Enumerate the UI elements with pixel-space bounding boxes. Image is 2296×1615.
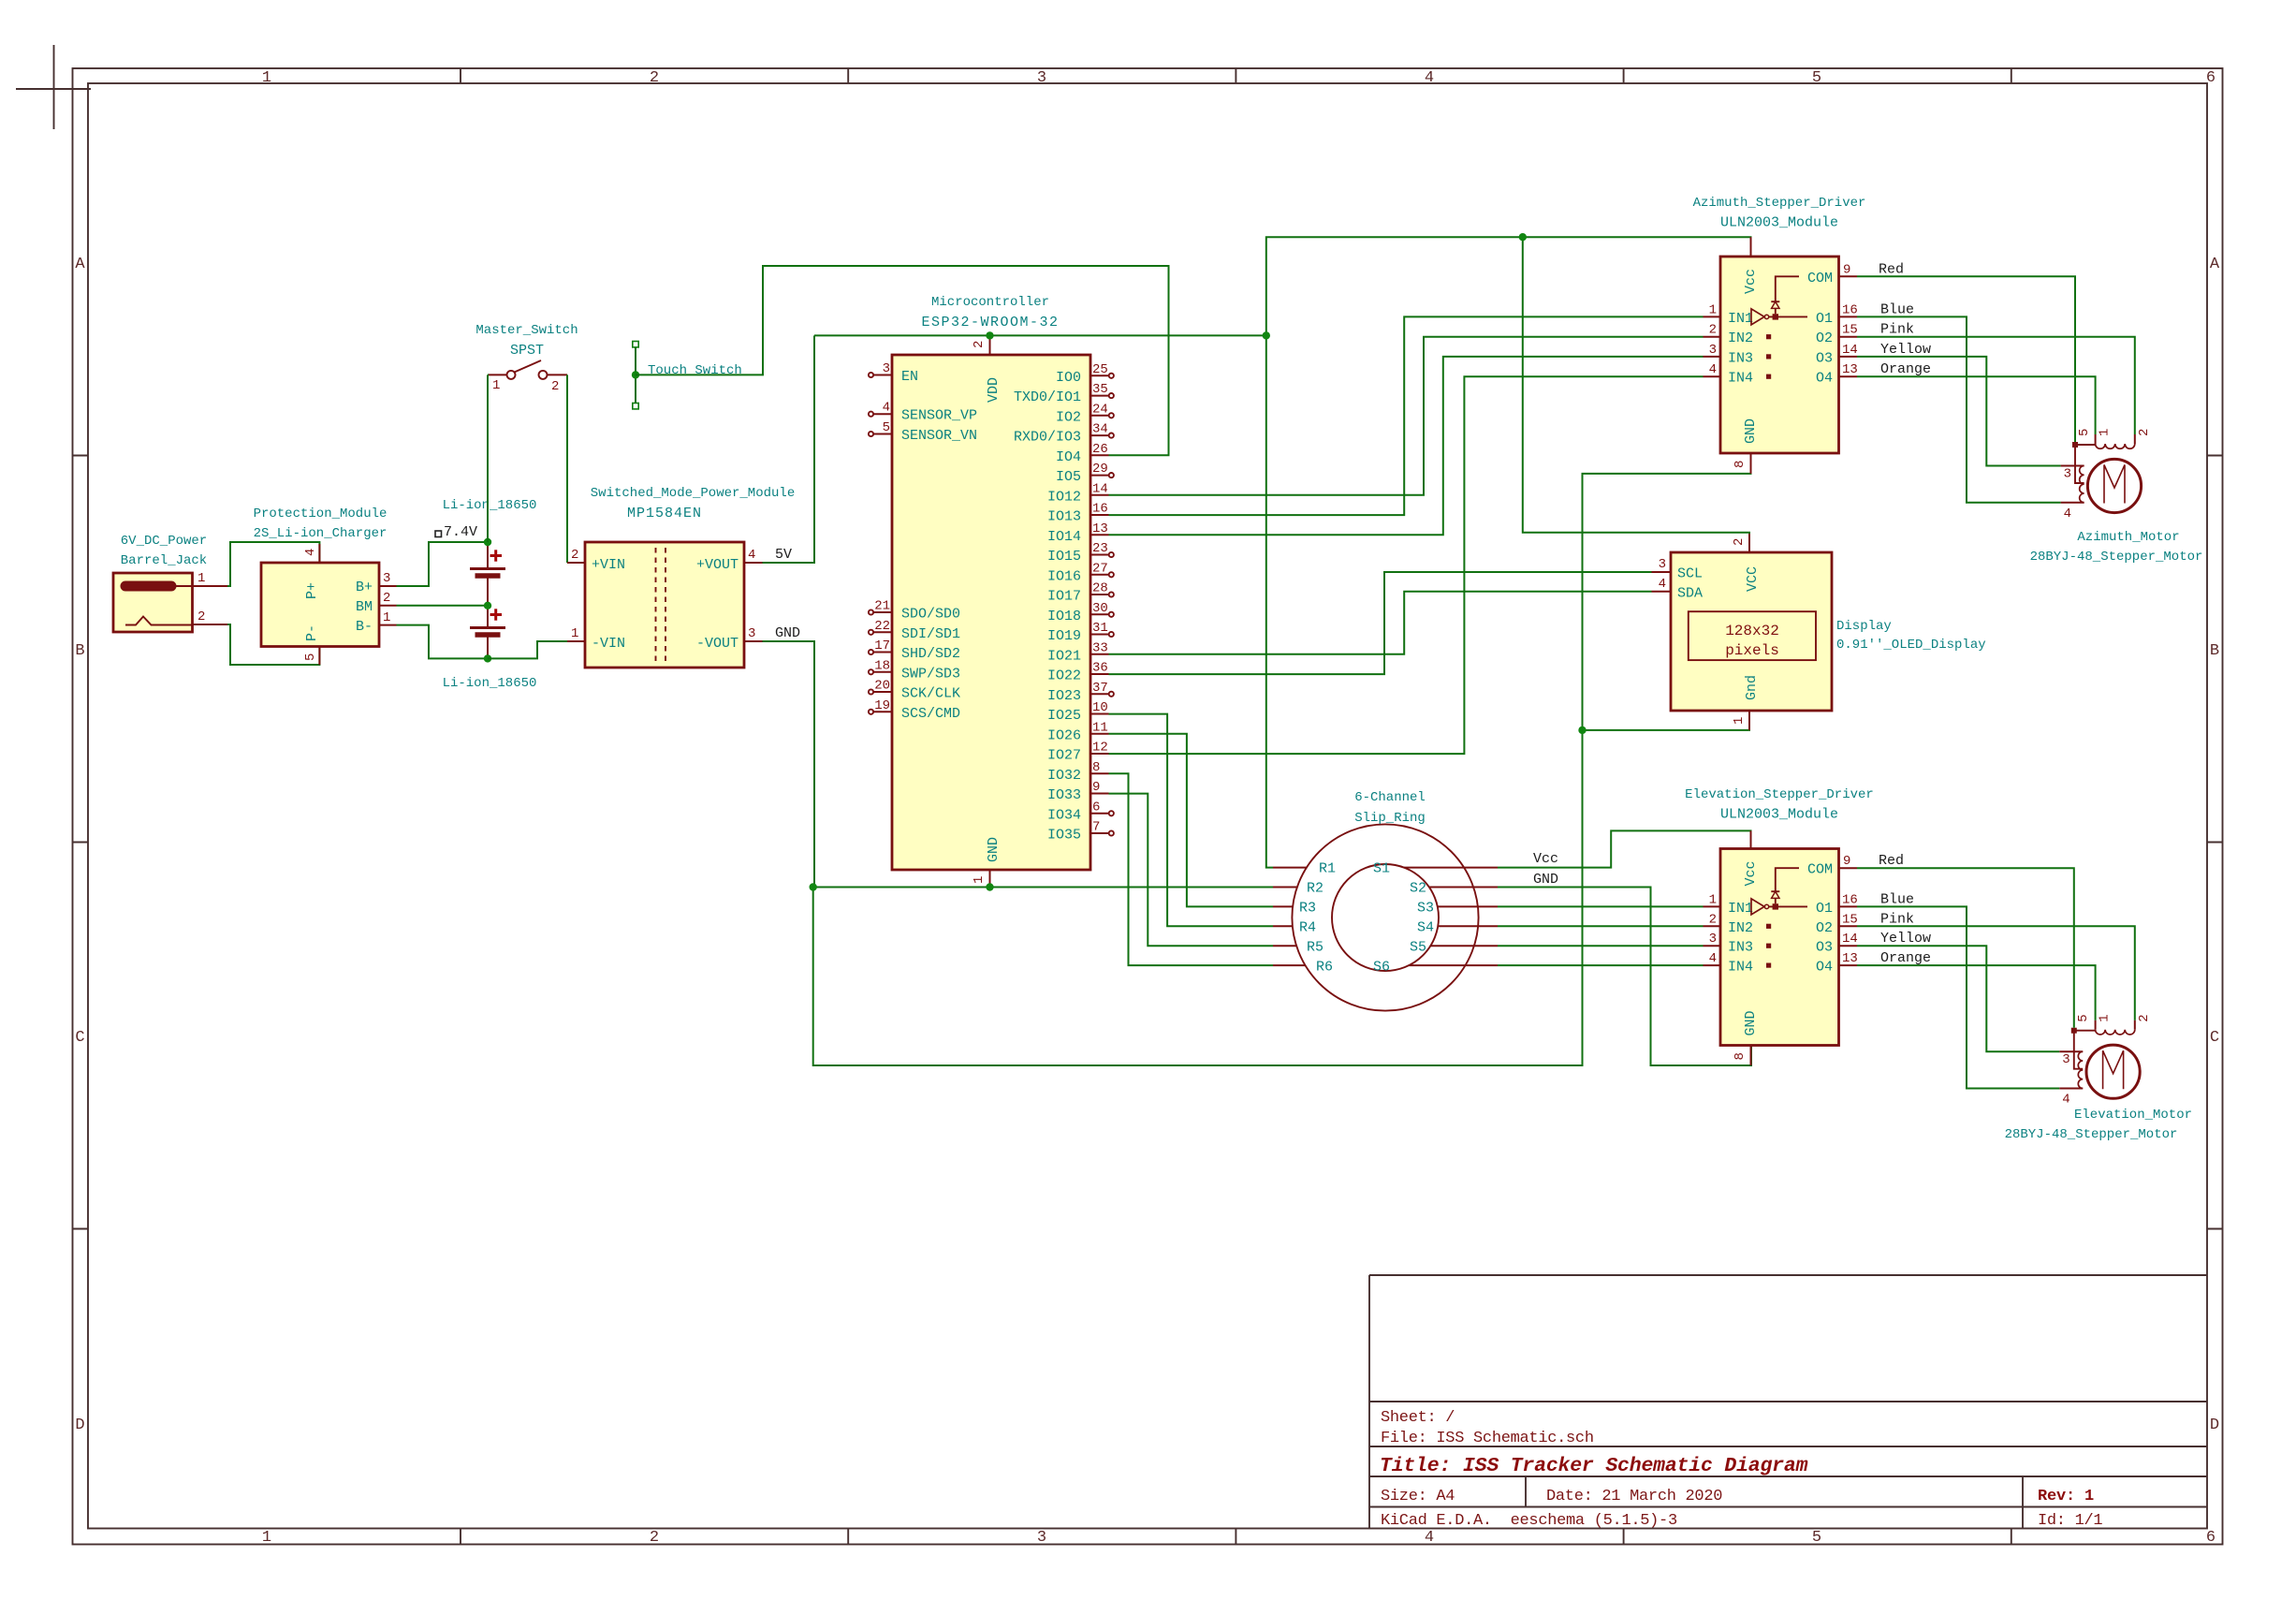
wire IO12 to azimuth IN2 xyxy=(1109,337,1704,495)
svg-text:Red: Red xyxy=(1879,853,1904,869)
pin 5 of elevation motor xyxy=(2071,1014,2096,1068)
svg-text:VCC: VCC xyxy=(1745,566,1761,592)
SLIPRING xyxy=(1273,790,1498,1011)
wire slip ring S2 GND to elevation GND xyxy=(1498,888,1751,1066)
svg-text:Blue: Blue xyxy=(1880,301,1914,317)
wire azimuth O2 Pink to motor pin2 xyxy=(1857,337,2135,434)
svg-text:KiCad E.D.A. eeschema (5.1.5): KiCad E.D.A. eeschema (5.1.5)-3 xyxy=(1381,1512,1677,1530)
svg-text:Vcc: Vcc xyxy=(1743,860,1759,886)
svg-text:2: 2 xyxy=(2137,429,2152,436)
svg-text:-VOUT: -VOUT xyxy=(696,636,739,652)
master switch SW1 SPST xyxy=(475,323,578,394)
svg-text:37: 37 xyxy=(1092,681,1108,696)
svg-text:7.4V: 7.4V xyxy=(444,524,477,540)
svg-text:RXD0/IO3: RXD0/IO3 xyxy=(1014,430,1081,446)
svg-text:C: C xyxy=(2210,1029,2219,1047)
wire GND bus to azimuth driver GND xyxy=(813,453,1751,1065)
svg-text:GND: GND xyxy=(1743,418,1759,444)
svg-text:IO23: IO23 xyxy=(1047,688,1081,704)
svg-text:TXD0/IO1: TXD0/IO1 xyxy=(1014,389,1081,405)
svg-text:1: 1 xyxy=(492,378,500,393)
wire IO25 to slip ring R4 xyxy=(1109,714,1274,927)
pin R3 of slip ring xyxy=(1273,901,1316,917)
svg-text:A: A xyxy=(75,256,85,273)
pin 9 COM of azimuth driver xyxy=(1807,262,1857,286)
pin 2 VCC of OLED xyxy=(1732,534,1749,552)
svg-text:IO16: IO16 xyxy=(1047,568,1081,584)
svg-text:+VIN: +VIN xyxy=(592,557,625,573)
svg-text:Sheet: /: Sheet: / xyxy=(1381,1409,1455,1427)
svg-text:Display: Display xyxy=(1836,619,1892,634)
svg-text:14: 14 xyxy=(1842,343,1858,358)
svg-text:5: 5 xyxy=(1812,69,1821,87)
pin 1 -VIN of SMPS xyxy=(567,626,585,641)
pin 8 GND of elevation driver xyxy=(1733,1046,1751,1066)
channel dot IN3 of elevation driver xyxy=(1766,944,1771,948)
svg-text:IO13: IO13 xyxy=(1047,509,1081,525)
svg-text:1: 1 xyxy=(383,610,390,625)
svg-text:S4: S4 xyxy=(1417,920,1434,936)
svg-text:Switched_Mode_Power_Module: Switched_Mode_Power_Module xyxy=(591,486,795,501)
svg-text:Date: 21 March 2020: Date: 21 March 2020 xyxy=(1546,1488,1722,1505)
wire switch pin2 to SMPS +VIN xyxy=(566,374,568,563)
pin 2 of azimuth motor xyxy=(2135,429,2152,444)
svg-text:4: 4 xyxy=(303,549,318,556)
svg-text:17: 17 xyxy=(874,639,890,653)
svg-text:18: 18 xyxy=(874,658,890,673)
pin 2 IN2 of elevation driver xyxy=(1704,912,1754,936)
pin 14 O3 of azimuth driver xyxy=(1816,343,1858,367)
pin R5 of slip ring xyxy=(1273,940,1323,956)
junction GND at ESP32 xyxy=(986,883,993,890)
svg-text:9: 9 xyxy=(1843,854,1850,869)
svg-text:R6: R6 xyxy=(1316,960,1333,976)
svg-text:15: 15 xyxy=(1842,323,1858,338)
svg-text:3: 3 xyxy=(748,626,755,641)
svg-text:Microcontroller: Microcontroller xyxy=(931,295,1049,310)
svg-text:5: 5 xyxy=(883,420,890,435)
svg-text:3: 3 xyxy=(1037,1529,1046,1547)
pin 28 IO17 of ESP32 xyxy=(1047,581,1114,605)
svg-text:21: 21 xyxy=(874,599,890,614)
pin R6 of slip ring xyxy=(1273,960,1333,976)
pin 4 of elevation motor xyxy=(2059,1089,2083,1108)
pin 1 GND of ESP32 xyxy=(972,870,990,888)
svg-text:5V: 5V xyxy=(775,547,792,563)
svg-text:Elevation_Motor: Elevation_Motor xyxy=(2074,1108,2192,1123)
svg-text:B: B xyxy=(2210,642,2219,660)
buffer and diode internals of azimuth driver xyxy=(1751,276,1807,325)
svg-text:5: 5 xyxy=(1812,1529,1821,1547)
svg-text:IN4: IN4 xyxy=(1728,371,1753,387)
svg-text:IO4: IO4 xyxy=(1056,449,1081,465)
wire elevation O3 Yellow to motor pin3 xyxy=(1857,946,2059,1051)
svg-text:30: 30 xyxy=(1092,601,1108,616)
svg-text:IO33: IO33 xyxy=(1047,787,1081,803)
svg-text:R1: R1 xyxy=(1319,861,1336,877)
svg-text:IO26: IO26 xyxy=(1047,727,1081,743)
wire +VOUT 5V up to VDD rail xyxy=(763,335,815,563)
wire jack pin2 to protection pin5 xyxy=(227,624,319,665)
wire azimuth O1 Blue to motor pin4 xyxy=(1857,316,2061,502)
pin S4 of slip ring xyxy=(1417,920,1498,936)
pin 3 IN3 of azimuth driver xyxy=(1704,343,1754,367)
svg-text:SHD/SD2: SHD/SD2 xyxy=(901,646,960,662)
svg-text:1: 1 xyxy=(972,876,987,884)
pin 29 IO5 of ESP32 xyxy=(1056,462,1114,485)
junction battery middle xyxy=(484,602,491,609)
pin 13 O4 of azimuth driver xyxy=(1816,362,1858,387)
pin 3 SCL of OLED xyxy=(1652,557,1704,582)
svg-text:SENSOR_VP: SENSOR_VP xyxy=(901,408,977,424)
svg-text:4: 4 xyxy=(1709,362,1717,377)
pin 8 GND of azimuth driver xyxy=(1733,453,1751,474)
OLED xyxy=(1652,534,1986,730)
pin 1 of azimuth motor xyxy=(2096,429,2113,444)
pin 25 IO0 of ESP32 xyxy=(1056,362,1114,386)
svg-text:R4: R4 xyxy=(1299,920,1316,936)
channel dot IN2 of elevation driver xyxy=(1766,924,1771,929)
svg-text:13: 13 xyxy=(1092,521,1108,536)
svg-text:COM: COM xyxy=(1807,862,1833,878)
wire slip ring S5 to elevation IN3 xyxy=(1498,945,1704,947)
pin S6 of slip ring xyxy=(1373,960,1498,976)
pin 8 IO32 of ESP32 xyxy=(1047,760,1109,784)
svg-text:SENSOR_VN: SENSOR_VN xyxy=(901,428,977,444)
svg-text:S5: S5 xyxy=(1410,940,1426,956)
pin R1 of slip ring xyxy=(1273,861,1336,877)
pin 3 -VOUT of SMPS xyxy=(744,626,763,641)
svg-text:1: 1 xyxy=(1732,717,1747,725)
svg-text:6V_DC_Power: 6V_DC_Power xyxy=(121,534,207,549)
svg-text:28BYJ-48_Stepper_Motor: 28BYJ-48_Stepper_Motor xyxy=(2030,550,2203,565)
wire slip ring S4 to elevation IN2 xyxy=(1498,925,1704,927)
svg-text:19: 19 xyxy=(874,698,890,713)
pin 10 IO25 of ESP32 xyxy=(1047,700,1109,724)
svg-text:O1: O1 xyxy=(1816,901,1833,917)
pin 36 IO22 of ESP32 xyxy=(1047,661,1109,684)
svg-text:IO5: IO5 xyxy=(1056,469,1081,485)
svg-text:6: 6 xyxy=(2206,1529,2216,1547)
pin 14 IO12 of ESP32 xyxy=(1047,481,1109,505)
svg-text:P+: P+ xyxy=(304,582,320,599)
junction OLED Gnd tap xyxy=(1578,727,1586,734)
pin S2 of slip ring xyxy=(1410,881,1498,897)
svg-text:22: 22 xyxy=(874,619,890,634)
svg-text:BM: BM xyxy=(356,599,373,615)
svg-text:3: 3 xyxy=(2062,1052,2069,1067)
pin 33 IO21 of ESP32 xyxy=(1047,640,1109,664)
svg-text:Red: Red xyxy=(1879,261,1904,277)
svg-text:Azimuth_Stepper_Driver: Azimuth_Stepper_Driver xyxy=(1693,196,1866,211)
svg-text:R3: R3 xyxy=(1299,901,1316,917)
wire touch switch to ESP32 IO4 xyxy=(636,266,1169,455)
svg-text:Blue: Blue xyxy=(1880,891,1914,907)
svg-text:S2: S2 xyxy=(1410,881,1426,897)
POWERLEFT xyxy=(113,266,1169,888)
svg-text:IN1: IN1 xyxy=(1728,311,1753,327)
pin 35 TXD0/IO1 of ESP32 xyxy=(1014,382,1114,405)
svg-text:ESP32-WROOM-32: ESP32-WROOM-32 xyxy=(921,315,1059,330)
svg-text:SPST: SPST xyxy=(510,343,544,359)
svg-text:Pink: Pink xyxy=(1880,322,1914,338)
wire IO27 to azimuth IN4 xyxy=(1109,376,1704,754)
svg-text:11: 11 xyxy=(1092,720,1108,735)
svg-text:S6: S6 xyxy=(1373,960,1390,976)
svg-text:8: 8 xyxy=(1733,1052,1748,1060)
touch switch wire stub xyxy=(633,342,742,409)
pin 3 EN of ESP32 xyxy=(869,361,918,385)
svg-text:3: 3 xyxy=(883,361,890,376)
svg-text:O4: O4 xyxy=(1816,371,1833,387)
svg-text:IO15: IO15 xyxy=(1047,549,1081,565)
pin 3 IN3 of elevation driver xyxy=(1704,932,1754,956)
battery BT2 Li-ion_18650 xyxy=(443,606,537,691)
pin 37 IO23 of ESP32 xyxy=(1047,681,1114,704)
svg-text:Gnd: Gnd xyxy=(1744,675,1760,700)
pin 17 SHD/SD2 of ESP32 xyxy=(869,639,960,662)
svg-text:7: 7 xyxy=(1092,820,1100,835)
svg-text:4: 4 xyxy=(2062,1093,2069,1108)
pin 16 O1 of elevation driver xyxy=(1816,892,1858,917)
svg-text:2: 2 xyxy=(2137,1014,2152,1021)
svg-text:IO14: IO14 xyxy=(1047,529,1081,545)
svg-text:34: 34 xyxy=(1092,422,1108,437)
pin 14 O3 of elevation driver xyxy=(1816,932,1858,956)
pin 13 O4 of elevation driver xyxy=(1816,951,1858,976)
svg-text:IO32: IO32 xyxy=(1047,768,1081,784)
svg-text:1: 1 xyxy=(197,571,205,586)
svg-text:4: 4 xyxy=(1659,577,1666,592)
svg-text:0.91''_OLED_Display: 0.91''_OLED_Display xyxy=(1836,638,1986,653)
wire BM to battery middle xyxy=(397,605,489,607)
pin 27 IO16 of ESP32 xyxy=(1047,561,1114,584)
svg-text:ULN2003_Module: ULN2003_Module xyxy=(1720,215,1838,231)
svg-text:IO27: IO27 xyxy=(1047,748,1081,764)
wire VDD 5V rail xyxy=(814,334,1266,336)
pin Vcc of elevation driver xyxy=(1750,830,1752,848)
svg-text:1: 1 xyxy=(2098,1014,2113,1021)
svg-text:IN3: IN3 xyxy=(1728,940,1753,956)
slip ring SR1 6-Channel xyxy=(1292,790,1478,1011)
svg-text:IN2: IN2 xyxy=(1728,920,1753,936)
svg-text:3: 3 xyxy=(1709,932,1717,947)
svg-text:A: A xyxy=(2210,256,2220,273)
svg-text:IN1: IN1 xyxy=(1728,901,1753,917)
svg-text:Slip_Ring: Slip_Ring xyxy=(1354,811,1426,826)
wire azimuth COM Red to motor pin5 xyxy=(1857,276,2075,442)
buffer and diode internals of elevation driver xyxy=(1751,868,1807,915)
pin 1 Gnd of OLED xyxy=(1732,711,1749,730)
protection module U2 2S_Li-ion_Charger xyxy=(254,507,388,647)
wire IO32 to slip ring R6 xyxy=(1109,773,1274,965)
pin 4 IN4 of elevation driver xyxy=(1704,951,1754,976)
svg-text:Yellow: Yellow xyxy=(1880,342,1931,358)
svg-text:12: 12 xyxy=(1092,741,1108,756)
svg-text:IO12: IO12 xyxy=(1047,489,1081,505)
AZIMUTH xyxy=(1693,196,2203,565)
channel dot IN3 of azimuth driver xyxy=(1766,354,1771,359)
pin 26 IO4 of ESP32 xyxy=(1056,442,1109,465)
wire B+ to battery top xyxy=(397,542,489,586)
svg-text:R2: R2 xyxy=(1307,881,1323,897)
wire IO33 to slip ring R5 xyxy=(1109,794,1274,947)
pin 23 IO15 of ESP32 xyxy=(1047,541,1114,565)
svg-text:3: 3 xyxy=(1037,69,1046,87)
pin 1 of elevation motor xyxy=(2096,1014,2113,1029)
svg-text:O1: O1 xyxy=(1816,311,1833,327)
pin R2 of slip ring xyxy=(1273,881,1323,897)
pin 20 SCK/CLK of ESP32 xyxy=(869,679,960,702)
pin 3 B+ of protection module xyxy=(379,571,397,586)
pin 2 VDD of ESP32 xyxy=(972,335,990,355)
svg-text:O2: O2 xyxy=(1816,920,1833,936)
svg-text:O4: O4 xyxy=(1816,960,1833,976)
battery BT1 Li-ion_18650 xyxy=(443,498,537,606)
svg-text:25: 25 xyxy=(1092,362,1108,377)
wire IO22 to OLED SCL xyxy=(1109,572,1652,674)
pin 22 SDI/SD1 of ESP32 xyxy=(869,619,960,642)
pin 2 +VIN of SMPS xyxy=(567,548,585,563)
svg-text:Li-ion_18650: Li-ion_18650 xyxy=(443,676,537,691)
pin 4 IN4 of azimuth driver xyxy=(1704,362,1754,387)
wire Vcc branch down to slip ring R1 xyxy=(1266,335,1273,867)
svg-text:B: B xyxy=(75,642,84,660)
svg-text:SDO/SD0: SDO/SD0 xyxy=(901,607,960,623)
wire IO13 to azimuth IN1 xyxy=(1109,316,1704,515)
svg-text:S3: S3 xyxy=(1417,901,1434,917)
Azimuth_Stepper_Driver ULN2003_Module xyxy=(1693,196,1866,453)
svg-text:IN2: IN2 xyxy=(1728,330,1753,346)
svg-text:R5: R5 xyxy=(1307,940,1323,956)
svg-text:8: 8 xyxy=(1733,461,1748,468)
wire slip ring S6 to elevation IN4 xyxy=(1498,964,1704,966)
wire azimuth O4 Orange to motor pin1 xyxy=(1857,376,2096,434)
svg-text:Title: ISS Tracker Schematic D: Title: ISS Tracker Schematic Diagram xyxy=(1380,1455,1808,1477)
pin 4 SDA of OLED xyxy=(1652,577,1704,601)
svg-text:IN4: IN4 xyxy=(1728,960,1753,976)
pin S1 of slip ring xyxy=(1373,861,1498,877)
svg-text:2: 2 xyxy=(972,341,987,348)
connector J1 6V_DC_Power Barrel_Jack xyxy=(113,534,207,632)
svg-text:5: 5 xyxy=(2076,1014,2091,1021)
svg-text:13: 13 xyxy=(1842,951,1858,966)
svg-text:24: 24 xyxy=(1092,402,1108,417)
svg-text:29: 29 xyxy=(1092,462,1108,477)
wire elevation O2 Pink to motor pin2 xyxy=(1857,926,2135,1020)
svg-text:16: 16 xyxy=(1842,302,1858,317)
svg-text:Barrel_Jack: Barrel_Jack xyxy=(121,553,207,568)
svg-text:P-: P- xyxy=(304,624,320,641)
svg-text:pixels: pixels xyxy=(1725,642,1779,659)
pin 4 of azimuth motor xyxy=(2061,503,2084,521)
pin 4 SENSOR_VP of ESP32 xyxy=(869,401,977,424)
svg-text:SDA: SDA xyxy=(1677,585,1703,601)
pin 1 B- of protection module xyxy=(379,610,397,625)
svg-text:15: 15 xyxy=(1842,912,1858,927)
wire B- to battery bottom xyxy=(397,625,489,659)
svg-text:GND: GND xyxy=(986,837,1002,862)
pin 3 of elevation motor xyxy=(2059,1051,2083,1067)
svg-text:Vcc: Vcc xyxy=(1743,269,1759,294)
svg-text:COM: COM xyxy=(1807,271,1833,286)
channel dot IN4 of elevation driver xyxy=(1766,963,1771,968)
pin 15 O2 of elevation driver xyxy=(1816,912,1858,936)
pin 11 IO26 of ESP32 xyxy=(1047,720,1109,743)
svg-text:4: 4 xyxy=(883,401,890,416)
svg-text:GND: GND xyxy=(1533,872,1558,888)
pin 6 IO34 of ESP32 xyxy=(1047,800,1114,823)
wire IO14 to azimuth IN3 xyxy=(1109,357,1704,535)
svg-text:2: 2 xyxy=(1709,323,1717,338)
svg-text:35: 35 xyxy=(1092,382,1108,397)
svg-text:SDI/SD1: SDI/SD1 xyxy=(901,626,960,642)
svg-text:Yellow: Yellow xyxy=(1880,931,1931,947)
svg-text:28: 28 xyxy=(1092,581,1108,596)
svg-text:10: 10 xyxy=(1092,700,1108,715)
svg-text:Vcc: Vcc xyxy=(1533,851,1558,867)
svg-text:4: 4 xyxy=(1425,1529,1434,1547)
motor elevation 28BYJ-48 xyxy=(2005,1030,2192,1142)
svg-text:2: 2 xyxy=(383,591,390,606)
junction 5V rail to drivers xyxy=(1263,331,1270,339)
pin 18 SWP/SD3 of ESP32 xyxy=(869,658,960,682)
svg-text:2: 2 xyxy=(650,1529,659,1547)
svg-text:23: 23 xyxy=(1092,541,1108,556)
svg-text:9: 9 xyxy=(1843,262,1850,277)
svg-text:4: 4 xyxy=(2064,507,2071,521)
SMPS U3 MP1584EN module xyxy=(585,486,795,668)
svg-text:8: 8 xyxy=(1092,760,1100,775)
svg-text:1: 1 xyxy=(262,69,271,87)
pin 21 SDO/SD0 of ESP32 xyxy=(869,599,960,623)
svg-text:SCL: SCL xyxy=(1677,566,1703,582)
svg-text:5: 5 xyxy=(303,653,318,661)
svg-text:Azimuth_Motor: Azimuth_Motor xyxy=(2077,530,2179,545)
svg-text:Elevation_Stepper_Driver: Elevation_Stepper_Driver xyxy=(1685,787,1874,802)
pin 30 IO18 of ESP32 xyxy=(1047,601,1114,624)
svg-text:SWP/SD3: SWP/SD3 xyxy=(901,666,960,682)
pin 1 IN1 of elevation driver xyxy=(1704,892,1754,917)
svg-text:SCS/CMD: SCS/CMD xyxy=(901,706,960,722)
ESP32 xyxy=(869,295,1114,888)
pin 9 COM of elevation driver xyxy=(1807,854,1857,878)
svg-text:GND: GND xyxy=(775,625,800,641)
pin R4 of slip ring xyxy=(1273,920,1316,936)
wire jack pin1 to protection pin4 xyxy=(227,542,319,586)
svg-text:14: 14 xyxy=(1092,481,1108,496)
svg-text:2: 2 xyxy=(571,548,578,563)
pin 9 IO33 of ESP32 xyxy=(1047,780,1109,803)
svg-text:5: 5 xyxy=(2077,429,2092,436)
svg-text:3: 3 xyxy=(383,571,390,586)
svg-text:-VIN: -VIN xyxy=(592,636,625,652)
svg-text:MP1584EN: MP1584EN xyxy=(627,506,702,521)
wire elevation O1 Blue to motor pin4 xyxy=(1857,906,2059,1088)
svg-text:IO17: IO17 xyxy=(1047,589,1081,605)
svg-text:IO0: IO0 xyxy=(1056,370,1081,386)
svg-text:6: 6 xyxy=(2206,69,2216,87)
svg-text:Rev: 1: Rev: 1 xyxy=(2038,1488,2094,1505)
svg-text:16: 16 xyxy=(1842,892,1858,907)
wire slip ring S3 to elevation IN1 xyxy=(1498,905,1704,907)
wire Vcc branch to OLED VCC xyxy=(1523,237,1749,552)
svg-text:3: 3 xyxy=(1709,343,1717,358)
wire GND bus ESP to slip ring R2 xyxy=(813,887,1273,888)
pin 16 O1 of azimuth driver xyxy=(1816,302,1858,327)
svg-text:VDD: VDD xyxy=(986,377,1002,403)
svg-text:Touch_Switch: Touch_Switch xyxy=(648,363,742,378)
